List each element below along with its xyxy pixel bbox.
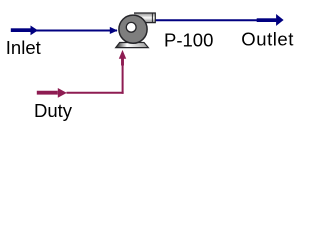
pump P-100: [116, 13, 156, 48]
pump casing circle: [119, 15, 147, 43]
energy stream Duty arrow icon: [37, 88, 67, 98]
svg-text:Duty: Duty: [34, 100, 73, 121]
pump base trapezoid: [116, 43, 149, 48]
wire duty horizontal: [67, 92, 124, 94]
wire inlet stream line: [12, 30, 118, 32]
wire outlet stream line: [156, 19, 277, 21]
svg-text:P-100: P-100: [164, 29, 213, 50]
inlet connection arrowhead at pump nozzle: [110, 27, 118, 34]
svg-text:Inlet: Inlet: [6, 37, 41, 58]
material stream Inlet arrow icon: [11, 26, 38, 36]
duty connection arrowhead at pump base: [119, 50, 126, 66]
pump hub inner circle: [126, 22, 136, 32]
pump discharge flange line: [151, 13, 153, 22]
wire duty vertical: [122, 62, 124, 94]
pump discharge pipe body: [134, 13, 155, 23]
material stream Outlet arrow icon: [257, 14, 284, 26]
svg-text:Outlet: Outlet: [241, 28, 294, 49]
